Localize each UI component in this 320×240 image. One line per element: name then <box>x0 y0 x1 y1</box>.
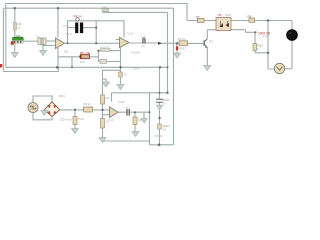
wire C2 top <box>68 20 125 22</box>
wire x77 stub <box>57 67 59 71</box>
junction node (159.5,92.8) <box>159 92 161 94</box>
wire lower left y71.5 <box>3 71 58 73</box>
wire Q1 collector up <box>206 30 208 39</box>
wire bridge rail y109.7 <box>60 109 103 111</box>
wire x167.5 down <box>167 12 169 92</box>
tick y136 <box>155 135 163 137</box>
wire opto bottom y29.7 <box>207 29 245 31</box>
svg-text:10k: 10k <box>102 5 107 9</box>
wire op3 out <box>118 111 149 113</box>
resistor R1 <box>14 22 22 30</box>
wire R10 hang <box>74 110 76 129</box>
junction node (268,52.8) <box>267 52 269 54</box>
ground (x106) <box>103 82 110 87</box>
wire op1 plus to ground <box>43 46 55 51</box>
wire C2 mid vertical <box>95 21 97 44</box>
resistor R7 <box>196 15 204 23</box>
wire x149.5 down <box>149 93 151 145</box>
resistor R14 <box>133 117 142 125</box>
wire y56.7 rail <box>58 56 98 58</box>
wire x98.4 link <box>97 51 99 62</box>
junction node (255.5,32.3) <box>254 31 256 33</box>
junction node (96.2,43.3) <box>95 42 97 44</box>
junction node (159.5,118) <box>158 117 160 119</box>
svg-text:C3: C3 <box>63 24 67 28</box>
svg-text:U1 A: U1 A <box>66 32 72 36</box>
ground (R13) <box>99 138 106 143</box>
op-amp U1A <box>56 32 72 54</box>
component x122 below rail <box>119 72 128 77</box>
svg-text:100n: 100n <box>133 66 140 70</box>
svg-text:U5: U5 <box>218 13 222 17</box>
junction node (149.5,112.2) <box>149 111 151 113</box>
resistor R11 <box>248 14 255 22</box>
capacitor C2 plates <box>75 23 83 34</box>
svg-text:10k: 10k <box>64 50 69 54</box>
junction node (159,144.8) <box>158 144 161 147</box>
wire C2 right vertical <box>123 21 125 38</box>
svg-text:120 Vrms: 120 Vrms <box>60 118 73 122</box>
wire y61.5 lower <box>98 61 120 63</box>
wire R14 hang <box>134 112 136 131</box>
resistor R13 <box>101 119 110 129</box>
capacitor C1 <box>36 35 46 45</box>
wire left vertical outer <box>5 4 7 68</box>
wire x72 stub <box>71 57 73 68</box>
wire R12 branch <box>255 32 268 53</box>
ground (R10) <box>72 129 79 134</box>
svg-text:U3 B: U3 B <box>118 100 124 104</box>
wire y146 <box>150 144 174 146</box>
junction node (58,8.2) <box>57 7 59 9</box>
wire y50.6 upper <box>98 50 120 52</box>
resistor R9 <box>101 95 110 104</box>
junction node (167.5,92.8) <box>166 92 168 94</box>
svg-text:Q1: Q1 <box>209 39 213 43</box>
svg-text:1V: 1V <box>163 101 167 105</box>
wire R7 to opto <box>204 20 216 22</box>
wire corner to R7 <box>187 20 198 22</box>
wire R6 to Q1 <box>188 42 204 44</box>
wire top outer loop <box>6 4 187 21</box>
ground (Q1 emitter) <box>204 66 211 71</box>
svg-text:R9: R9 <box>106 96 110 100</box>
svg-text:R10: R10 <box>79 117 85 121</box>
wire AC top loop <box>33 96 52 103</box>
wire x102 column <box>102 70 104 137</box>
wire x245 jog <box>246 30 256 33</box>
probe component AN02 <box>158 124 171 132</box>
wire left vertical x3.4 <box>2 8 4 71</box>
svg-text:10k: 10k <box>80 60 85 64</box>
wire op1 bottom pin <box>57 48 59 67</box>
resistor R12 <box>253 44 263 51</box>
wire opto to R11 <box>231 20 249 22</box>
svg-text:C10: C10 <box>109 118 115 122</box>
wire motor to lamp <box>285 40 292 69</box>
resistor R8 <box>83 102 93 112</box>
red tick on left border <box>0 64 2 68</box>
wire gnd hang x177 <box>176 43 178 46</box>
ground (x122 column) <box>117 85 124 90</box>
net arrow y43 <box>158 42 162 45</box>
optocoupler K1 <box>216 13 231 31</box>
lamp X1 (black circle) <box>287 30 298 41</box>
op-amp U3B <box>109 100 125 122</box>
wire R11 to lamp <box>255 21 293 31</box>
junction node (72,67.3) <box>71 66 73 68</box>
motor M1 <box>274 63 284 73</box>
wire bridge gnd stub <box>43 109 45 112</box>
wire box top y70.3 <box>103 69 121 71</box>
svg-text:R6 1k: R6 1k <box>178 37 186 41</box>
wire x111.5 down <box>111 93 113 102</box>
wire x58 drop <box>57 8 59 37</box>
capacitor C4 <box>142 35 146 48</box>
wire signal rail y43.3 <box>65 42 120 44</box>
wire second rail y8 <box>3 7 173 9</box>
wire op3 input stubs <box>103 110 110 115</box>
wire Q1 emitter <box>206 48 208 66</box>
ground with red mark at 177 <box>174 46 185 58</box>
wire op2 minus stub <box>116 39 120 41</box>
junction node (160,67.3) <box>159 66 161 68</box>
svg-text:2V: 2V <box>163 128 167 132</box>
wire x268 down <box>268 21 274 70</box>
potentiometer R4 label box <box>101 45 111 52</box>
capacitor C2 polarity circle <box>76 18 79 21</box>
junction node (98.4,50.6) <box>97 50 99 52</box>
ground small (x144) <box>141 119 147 124</box>
junction node (96.2,27.6) <box>95 27 97 29</box>
wire x173 down <box>173 8 175 145</box>
wire x159.5 column <box>159 67 161 145</box>
ground (bridge) <box>41 110 48 115</box>
capacitor after op3 <box>126 105 130 116</box>
transistor Q1 <box>204 39 213 48</box>
svg-text:LM358: LM358 <box>131 50 140 54</box>
junction node (120.5,67.3) <box>119 66 121 68</box>
svg-text:5 W: 5 W <box>263 35 268 39</box>
component J1 on top rails <box>102 5 109 12</box>
wire C1 to op1 <box>46 40 55 42</box>
junction node (67.5,43.3) <box>67 42 69 44</box>
wire x120.5 drop (op2 bottom pin) <box>120 48 122 68</box>
wire gnd stub x106 <box>103 79 107 82</box>
ground (C9) <box>157 105 163 110</box>
junction node (268,20.5) <box>267 19 269 21</box>
svg-text:4N25: 4N25 <box>225 13 232 17</box>
junction node (57.3,67.3) <box>56 66 59 69</box>
microphone MIC1 <box>11 34 23 45</box>
wire x122 below rail <box>120 67 122 84</box>
svg-text:BR1: BR1 <box>59 94 65 98</box>
junction node (135,112.2) <box>134 111 136 113</box>
wire mic output <box>23 40 38 42</box>
component on y61.5 <box>100 59 106 63</box>
junction node (177,43.4) <box>176 42 178 44</box>
svg-text:R8 1k: R8 1k <box>83 102 91 106</box>
wire C2 left vertical <box>67 21 69 44</box>
ground (op1 plus) <box>40 51 47 56</box>
junction node (14.8,8.2) <box>14 7 16 9</box>
resistor R6 <box>178 37 188 46</box>
capacitor C9 plates <box>156 99 163 102</box>
junction node (102.5,109.9) <box>101 109 103 111</box>
ground (mic) <box>11 50 18 58</box>
resistor R10 <box>73 117 84 125</box>
wire op2 out <box>129 42 179 44</box>
op-amp U1B <box>120 31 141 54</box>
wire y141 <box>103 140 150 142</box>
svg-text:GND: GND <box>179 47 185 51</box>
bridge rectifier BR1 <box>44 94 65 117</box>
resistor R5 (dark red) <box>80 51 91 63</box>
svg-text:1u: 1u <box>142 44 146 48</box>
wire third rail y12.4 <box>103 11 168 13</box>
junction node (167.5,67.3) <box>167 66 169 68</box>
wire mic column <box>14 8 16 50</box>
AC source V1 <box>28 103 72 122</box>
wire x144 stub <box>143 112 145 118</box>
ground (R14) <box>132 132 139 137</box>
wire C2 leads <box>68 27 97 29</box>
wire feedback top y92.8 <box>112 92 168 94</box>
probe label AN01 <box>163 98 171 105</box>
wire AC bottom loop <box>33 113 52 120</box>
junction node (75,109.7) <box>74 109 76 111</box>
wire ground rail y67 <box>6 66 168 68</box>
svg-text:U1 B: U1 B <box>127 31 133 35</box>
svg-text:1u: 1u <box>126 105 129 109</box>
